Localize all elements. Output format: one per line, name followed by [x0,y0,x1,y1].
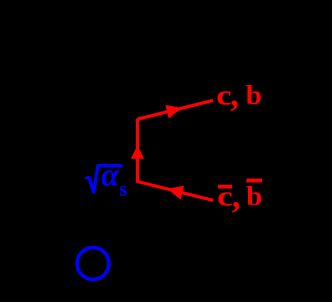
arrowhead on vertical segment (points up) [131,145,144,159]
radical sign: left tick [85,177,89,179]
overbar on bbar [247,179,263,183]
b of "c, b" [246,81,262,111]
wire: antiquark leg (lower diagonal from cbar,bbar toward vertex) [138,182,214,201]
arrowhead on lower diagonal (points up-left toward vertex) [167,186,184,200]
svg-text:,: , [232,176,241,215]
radical sign: down stroke [89,177,94,192]
label: cbar of "cbar, bbar" [217,179,232,212]
bbar of "cbar, bbar" [246,182,262,212]
svg-text:c: c [217,179,232,212]
wire: vertical quark-line segment [136,119,139,183]
node: blue circle (interaction blob) [77,248,109,280]
arrowhead on upper diagonal (points up-right) [165,105,181,119]
svg-text:,: , [230,75,239,114]
label: c of "c, b" [216,78,231,111]
svg-text:b: b [246,182,262,212]
radical sign: up stroke [94,165,98,194]
svg-text:s: s [119,176,127,201]
label: sqrt(alpha_s) coupling factor [85,156,127,201]
svg-text:b: b [246,81,262,111]
radical vinculum bar [98,164,123,168]
alpha glyph [101,156,120,193]
overbar on cbar [218,185,232,189]
wire: quark leg (upper diagonal from vertex to c,b) [138,100,214,119]
svg-text:α: α [101,156,120,193]
subscript s [119,176,127,201]
